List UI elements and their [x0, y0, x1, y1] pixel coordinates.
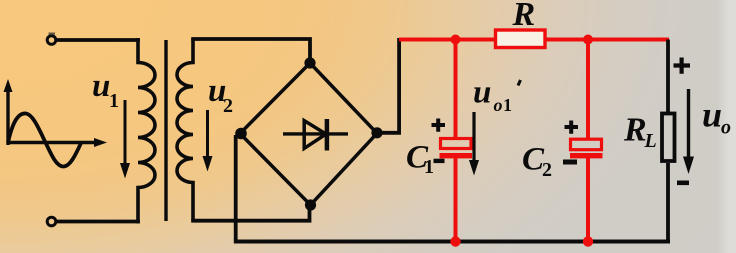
diode cathode bar: [325, 119, 330, 151]
svg-text:1: 1: [424, 156, 434, 178]
AC source vertical axis arrowhead: [4, 79, 13, 92]
wire C2 branch upper red: [586, 40, 590, 141]
wire bottom rail: [234, 240, 670, 244]
wire C1 branch upper red: [454, 40, 458, 140]
load resistor RL body: [662, 114, 675, 162]
transformer T1 secondary winding: [177, 39, 193, 221]
minus sign C2: [563, 160, 577, 165]
svg-text:u: u: [92, 68, 110, 104]
node red junction C2 bottom: [583, 236, 593, 246]
capacitor C1 top plate: [441, 139, 472, 149]
minus sign output: [677, 181, 689, 186]
diode symbol inside bridge: anode line: [283, 132, 348, 135]
wire primary bottom: [57, 220, 140, 224]
wire bridge left vertex down to bottom rail: [234, 135, 238, 240]
wire secondary bottom to bridge: [191, 204, 309, 221]
wire primary top: [57, 38, 140, 42]
AC source horizontal axis arrowhead: [94, 138, 107, 147]
wire C1 branch lower red: [454, 158, 458, 242]
svg-text:o: o: [721, 117, 731, 139]
minus sign C1: [434, 159, 445, 163]
AC source sine wave: [8, 113, 81, 166]
terminal bottom input: [47, 217, 56, 226]
resistor R body: [496, 30, 546, 48]
svg-text:u: u: [473, 75, 491, 111]
AC source vertical axis: [6, 89, 9, 145]
wire load branch lower black: [666, 163, 670, 242]
wire top rail (+) red: [399, 38, 669, 42]
svg-text:1: 1: [503, 95, 512, 115]
wire secondary top to bridge: [191, 39, 310, 64]
node bridge right vertex: [371, 127, 382, 138]
plus sign C1: [432, 119, 446, 132]
transformer core: [164, 40, 167, 221]
svg-text:1: 1: [109, 90, 119, 112]
node bridge bottom vertex: [305, 199, 316, 210]
diode triangle (outlined): [304, 121, 326, 149]
arrow u1: [124, 100, 127, 166]
wire C2 branch lower red: [586, 158, 590, 242]
capacitor C2 bottom plate: [570, 153, 603, 158]
transformer T1 primary winding: [138, 38, 155, 223]
node bridge top vertex: [304, 57, 315, 68]
arrow u2: [206, 110, 209, 160]
wire bridge right vertex to top rail corner: [377, 38, 399, 133]
node red junction C1 top: [451, 35, 461, 45]
plus sign C2: [565, 121, 579, 134]
wire load branch upper black: [666, 40, 670, 113]
artifact tick above terminal: [49, 33, 56, 35]
plus sign output: [674, 58, 691, 74]
svg-text:o: o: [494, 95, 503, 115]
svg-text:u: u: [702, 95, 722, 135]
AC source horizontal axis: [8, 141, 98, 144]
node red junction C2 top: [583, 35, 593, 45]
bridge rectifier diamond: [240, 63, 377, 205]
svg-text:L: L: [644, 130, 657, 152]
node bridge left vertex: [235, 128, 247, 140]
arrow uo1': [472, 112, 475, 162]
svg-text:2: 2: [223, 95, 233, 117]
svg-text:R: R: [512, 0, 536, 33]
arrow uo: [687, 89, 690, 158]
capacitor C1 bottom plate: [440, 153, 473, 158]
svg-text:R: R: [623, 112, 647, 149]
terminal top input: [47, 36, 56, 45]
svg-text:2: 2: [542, 159, 552, 181]
node red junction C1 bottom: [450, 236, 460, 246]
capacitor C2 top plate: [571, 139, 602, 150]
